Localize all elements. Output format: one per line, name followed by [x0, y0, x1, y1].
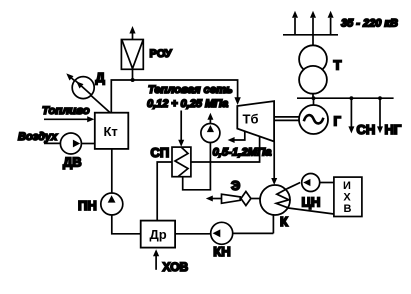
wire steam header from boiler to turbine	[111, 80, 241, 113]
wire deaerator to KN pump to condenser	[175, 232, 273, 234]
svg-text:К: К	[280, 214, 288, 229]
wire HOV arrow into deaerator	[153, 249, 159, 269]
condenser K	[260, 185, 290, 215]
wire boiler to PN pump	[111, 149, 113, 193]
fan D (smoke exhauster)	[66, 73, 110, 112]
wire SP bottom loop to network pump	[183, 142, 211, 190]
svg-text:КН: КН	[213, 244, 230, 259]
svg-text:Кт: Кт	[104, 124, 118, 139]
generator G	[299, 105, 328, 134]
wire extraction with left arrow (0,5-1,2 MPa)	[228, 131, 245, 143]
fan DV (air blower)	[60, 133, 94, 154]
pump network (heat network pump)	[201, 113, 220, 143]
label Vozduh with wire	[18, 131, 61, 144]
node SN tap	[350, 96, 354, 100]
svg-text:ДВ: ДВ	[63, 154, 82, 169]
svg-text:Тепловая сеть: Тепловая сеть	[148, 84, 233, 96]
wire NG arrow	[377, 98, 383, 133]
boiler Kt	[95, 113, 129, 149]
svg-text:Г: Г	[334, 114, 342, 129]
pump PN (feed pump)	[101, 193, 123, 215]
node gen bus / transformer	[312, 96, 316, 100]
wire generator to bus	[313, 98, 315, 105]
wire HV outgoing line 1	[292, 11, 298, 35]
svg-text:РОУ: РОУ	[150, 48, 172, 60]
svg-text:Топливо: Топливо	[42, 105, 90, 117]
svg-text:ЦН: ЦН	[302, 195, 321, 210]
svg-text:ХОВ: ХОВ	[163, 260, 189, 274]
svg-text:Д: Д	[96, 70, 106, 85]
svg-text:СП: СП	[151, 145, 170, 160]
wire PN pump to deaerator Dr	[112, 215, 141, 234]
svg-text:ПН: ПН	[78, 198, 97, 213]
svg-text:Др: Др	[150, 227, 167, 242]
valve ROU (reduction unit)	[121, 26, 143, 80]
pump KN (condensate pump)	[211, 222, 233, 244]
svg-text:0,5-1,2МПа: 0,5-1,2МПа	[213, 147, 272, 159]
wire transformer to HV bus	[312, 35, 314, 46]
turbine Tb	[237, 101, 274, 141]
heater SP (network heater)	[172, 147, 191, 177]
ejector E with arrow	[206, 192, 260, 206]
HV bus	[283, 34, 338, 36]
svg-text:И: И	[343, 180, 351, 192]
node junction ROU/header	[131, 78, 135, 82]
svg-text:Воздух: Воздух	[18, 131, 58, 143]
wire extraction steam to SP heater	[191, 137, 260, 162]
node NG tap	[378, 96, 382, 100]
svg-text:НГ: НГ	[385, 122, 402, 137]
wire HV outgoing line 3	[328, 11, 334, 35]
svg-text:СН: СН	[357, 122, 376, 137]
wire CN pump to IHV	[320, 182, 334, 184]
wire condenser to CN pump	[287, 183, 300, 189]
label Toplivo with arrow into boiler	[42, 105, 94, 122]
svg-text:В: В	[344, 203, 352, 215]
svg-text:35 - 220 кВ: 35 - 220 кВ	[341, 18, 398, 30]
transformer T	[299, 45, 327, 93]
wire HV outgoing line 2	[310, 11, 316, 35]
svg-text:Э: Э	[231, 178, 240, 193]
svg-text:Тб: Тб	[243, 112, 259, 127]
wire condenser to KN line	[272, 215, 274, 234]
wire transformer to gen bus	[312, 94, 314, 99]
wire SP drain to deaerator	[157, 162, 172, 221]
svg-text:Х: Х	[343, 191, 351, 203]
tank IHV (cold water source)	[334, 177, 362, 216]
svg-text:Т: Т	[334, 58, 342, 73]
svg-text:0,12 ÷ 0,25 МПа: 0,12 ÷ 0,25 МПа	[147, 98, 228, 110]
shaft turbine-generator	[274, 117, 299, 121]
wire IHV to condenser	[288, 208, 334, 214]
deaerator Dr	[141, 221, 175, 248]
pump CN (circulation pump)	[302, 174, 320, 192]
generator bus	[297, 97, 394, 99]
wire network water into SP with down arrow	[178, 111, 184, 147]
wire turbine exhaust to condenser	[271, 142, 277, 186]
wire SN arrow	[348, 98, 354, 133]
